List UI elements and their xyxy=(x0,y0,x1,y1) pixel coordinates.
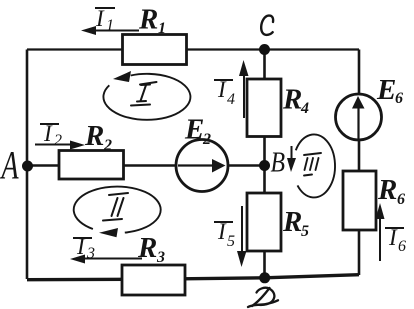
wire: bottom from left corner through R3 to node D and right corner xyxy=(27,275,359,280)
mesh loop III (vertical ellipse open at left, with down arrow) xyxy=(287,134,335,197)
svg-text:I: I xyxy=(43,121,53,146)
svg-text:2: 2 xyxy=(103,137,112,154)
svg-text:R: R xyxy=(282,84,302,116)
current arrow I2 (rightward, above R2) xyxy=(35,141,85,150)
svg-text:6: 6 xyxy=(398,238,406,255)
svg-text:A: A xyxy=(0,144,19,188)
svg-text:3: 3 xyxy=(156,249,165,266)
source E2 (EMF circle with right arrow) xyxy=(176,140,228,192)
label I2 xyxy=(40,121,62,149)
svg-text:I: I xyxy=(217,77,227,102)
label I3 xyxy=(73,234,95,262)
wire: top from left corner through R1 to node C and top-right corner xyxy=(27,48,359,50)
label I1 xyxy=(95,6,115,34)
svg-text:I: I xyxy=(76,234,86,259)
resistor R2 xyxy=(59,151,124,180)
wire: middle vertical C to D through R4, B, R5 xyxy=(263,50,266,279)
current arrow I5 (downward, left of R5) xyxy=(237,206,247,267)
wire: middle horizontal A to B through R2 and E2 xyxy=(27,164,265,166)
resistor R5 xyxy=(247,193,281,251)
svg-text:5: 5 xyxy=(227,233,235,250)
svg-text:I: I xyxy=(95,6,105,31)
svg-text:E: E xyxy=(184,114,204,146)
resistor R3 xyxy=(122,265,185,295)
label I5 xyxy=(214,219,235,250)
svg-text:5: 5 xyxy=(301,223,309,240)
wire: right side through E6 and R6 xyxy=(358,50,361,276)
resistor R1 xyxy=(123,35,187,65)
source E6 (EMF circle with up arrow) xyxy=(336,94,382,141)
label loop I xyxy=(131,82,157,106)
node D (junction dot) xyxy=(259,272,270,283)
label loop II xyxy=(103,193,128,221)
svg-text:3: 3 xyxy=(86,245,95,262)
svg-text:R: R xyxy=(138,4,158,36)
label loop III xyxy=(304,153,321,176)
svg-text:R: R xyxy=(84,120,104,152)
current arrow I1 (leftward, above R1) xyxy=(81,26,139,35)
svg-text:1: 1 xyxy=(106,17,114,34)
mesh loop II (ellipse arrow, arrowhead at bottom pointing left) xyxy=(74,187,161,238)
node A (junction dot) xyxy=(22,161,33,172)
label node C xyxy=(261,16,273,35)
node C (junction dot) xyxy=(259,44,270,55)
wire: left side A branch (top-left corner down to bottom-left corner) xyxy=(26,50,29,280)
svg-text:6: 6 xyxy=(397,191,405,208)
label I4 xyxy=(214,77,235,108)
svg-text:2: 2 xyxy=(54,132,62,149)
svg-text:6: 6 xyxy=(395,90,403,107)
svg-text:4: 4 xyxy=(227,91,235,108)
svg-text:B: B xyxy=(271,147,286,178)
svg-text:E: E xyxy=(376,74,396,106)
svg-text:R: R xyxy=(282,206,302,238)
svg-text:I: I xyxy=(217,219,227,244)
svg-text:I: I xyxy=(388,225,398,250)
svg-text:R: R xyxy=(377,174,397,206)
svg-text:4: 4 xyxy=(300,100,309,117)
svg-text:1: 1 xyxy=(158,20,166,37)
resistor R4 xyxy=(247,79,281,137)
svg-text:2: 2 xyxy=(202,131,211,148)
current arrow I4 (upward, left of R4) xyxy=(239,60,249,118)
resistor R6 xyxy=(343,171,376,230)
current arrow I6 (upward, right of R6) xyxy=(376,203,385,261)
node B (junction dot) xyxy=(259,160,270,171)
label I6 xyxy=(385,225,406,255)
current arrow I3 (leftward, above R3) xyxy=(70,255,142,264)
label node D xyxy=(248,288,278,307)
mesh loop I (ellipse arrow, counterclockwise arrowhead at top-left) xyxy=(103,71,190,120)
